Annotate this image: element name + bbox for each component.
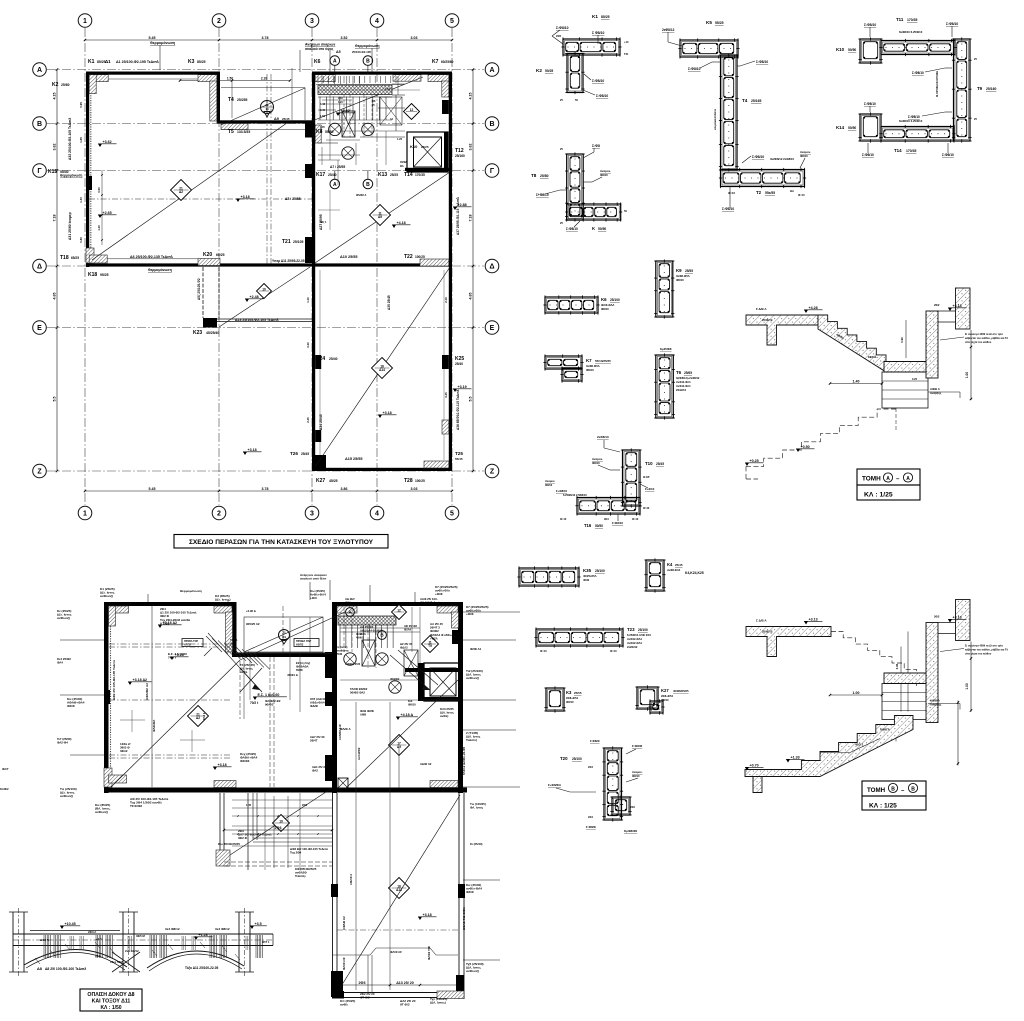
svg-text:Φ5Τ 1: Φ5Τ 1 <box>262 940 270 944</box>
svg-text:Δ5: Δ5 <box>336 50 341 54</box>
svg-text:25/100: 25/100 <box>572 757 582 761</box>
svg-text:25/60: 25/60 <box>61 83 70 87</box>
slab diamond stair <box>404 104 420 120</box>
svg-text:170/35: 170/35 <box>907 18 917 22</box>
svg-text:905/25 Λ2: 905/25 Λ2 <box>246 622 260 626</box>
svg-text:+Φ/Φ: +Φ/Φ <box>466 612 474 616</box>
stair treads upper flight <box>319 97 321 121</box>
svg-text:3Φ5 Μ: 3Φ5 Μ <box>136 934 145 938</box>
B-B upper landing slab <box>746 627 831 657</box>
svg-text:+4.18: +4.18 <box>397 221 406 225</box>
svg-text:Φ8/10: Φ8/10 <box>586 368 594 372</box>
svg-text:T11: T11 <box>896 17 904 22</box>
stair area more clutter <box>322 99 352 101</box>
svg-text:6.25Φ/10-0.5Φ 2/10: 6.25Φ/10-0.5Φ 2/10 <box>627 633 651 637</box>
svg-text:Σ:Φ8/10: Σ:Φ8/10 <box>556 26 569 30</box>
wc fixture circle 16 <box>342 147 354 159</box>
wall col 3 lower <box>312 266 315 471</box>
svg-text:Δ38 85/Φ10-Φ2-115 ΤεΔιπλ: Δ38 85/Φ10-Φ2-115 ΤεΔιπλ <box>456 389 460 430</box>
svg-text:+3.13: +3.13 <box>953 615 962 619</box>
column block col5 B <box>442 100 449 114</box>
svg-text:T22: T22 <box>404 254 413 260</box>
svg-text:Αναμον.: Αναμον. <box>545 479 555 483</box>
svg-text:Φ=10: Φ=10 <box>610 649 617 653</box>
svg-text:5.5: 5.5 <box>53 397 57 402</box>
svg-text:2Φ2: 2Φ2 <box>934 615 940 619</box>
svg-text:+0.25: +0.25 <box>750 459 759 463</box>
svg-text:0.45: 0.45 <box>320 108 326 112</box>
svg-text:Θερμομόνωση: Θερμομόνωση <box>150 41 175 45</box>
svg-text:Φ8/10: Φ8/10 <box>592 461 600 465</box>
svg-text:Σ:Φ8/Φ: Σ:Φ8/Φ <box>590 739 600 743</box>
column hatch K6 <box>315 75 335 82</box>
svg-text:K35: K35 <box>583 568 592 573</box>
svg-text:ανΦλ: ανΦλ <box>240 670 248 674</box>
svg-text:3.03: 3.03 <box>411 487 418 491</box>
svg-text:ΛΔ/Φ Λ2: ΛΔ/Φ Λ2 <box>420 762 432 766</box>
beam section K35 <box>519 568 579 586</box>
svg-text:Ε: Ε <box>490 325 495 332</box>
bottom plan lift shaft <box>424 663 462 701</box>
slab diamond small <box>257 284 272 299</box>
svg-text:ΚρΦ8/Φ0: ΚρΦ8/Φ0 <box>624 829 637 833</box>
svg-text:4: 4 <box>375 511 379 518</box>
svg-text:(ΔΛ. Ιστος): (ΔΛ. Ιστος) <box>430 1001 446 1005</box>
svg-text:45/Φ1 Δ: 45/Φ1 Δ <box>287 673 298 677</box>
svg-text:Υπερ Δ11 25/95-22-05: Υπερ Δ11 25/95-22-05 <box>272 259 305 263</box>
svg-text:25/40: 25/40 <box>328 173 337 177</box>
svg-text:Δ34 25/45: Δ34 25/45 <box>319 414 323 430</box>
level mark between cols 2-3 <box>243 452 247 455</box>
svg-text:Φ.ΟΡ: Φ.ΟΡ <box>643 476 650 479</box>
column block K17 <box>305 164 312 178</box>
svg-text:Δ8 25/ 100-Φ2-100 ΤεΔιπλ: Δ8 25/ 100-Φ2-100 ΤεΔιπλ <box>45 967 86 971</box>
B-B dashed upper flight <box>831 632 916 676</box>
svg-text:25/255: 25/255 <box>237 98 247 102</box>
A-A right vertical dim <box>970 330 972 400</box>
slab diagonal lower-right <box>315 267 450 467</box>
svg-text:+4.28: +4.28 <box>809 306 818 310</box>
bottom plan mid-strip verticals <box>239 654 241 719</box>
B-B central dim lines <box>900 647 902 712</box>
svg-text:ανΦλνιξ): ανΦλνιξ) <box>60 794 73 798</box>
svg-text:25/100: 25/100 <box>595 569 605 573</box>
svg-text:Θερμομόνωση: Θερμομόνωση <box>60 174 82 178</box>
column hatch K3 <box>198 75 217 82</box>
svg-text:25/40: 25/40 <box>329 357 338 361</box>
svg-text:T28: T28 <box>404 478 413 484</box>
wc fixture circle 15 <box>362 123 374 135</box>
svg-text:ΚΛ : 1/50: ΚΛ : 1/50 <box>100 1005 121 1011</box>
column hatch K20 <box>198 259 220 266</box>
svg-text:ΦΛ2-Φ4: ΦΛ2-Φ4 <box>57 741 68 745</box>
column hatch K26 <box>442 420 449 434</box>
svg-text:ΦΛ. Ιστος: ΦΛ. Ιστος <box>470 806 484 810</box>
svg-text:T2: T2 <box>756 190 762 195</box>
svg-text:1.20: 1.20 <box>397 137 403 141</box>
svg-text:ΤΟΜΗ: ΤΟΜΗ <box>862 476 881 483</box>
svg-text:Φ8/10: Φ8/10 <box>566 700 574 704</box>
column block K23 <box>203 318 217 328</box>
svg-text:Δ9: Δ9 <box>378 215 382 219</box>
slab diagonal small D13 <box>219 267 310 327</box>
slab diagonal stair corridor <box>312 77 423 121</box>
svg-text:25/100: 25/100 <box>638 628 648 632</box>
svg-text:Δ13 25/105-Φ2-105 ΤεΔιπλ: Δ13 25/105-Φ2-105 ΤεΔιπλ <box>235 318 279 322</box>
svg-text:Η7/Π2: Η7/Π2 <box>184 644 191 647</box>
svg-text:50/50: 50/50 <box>848 126 856 130</box>
svg-text:Φ=10: Φ=10 <box>798 193 805 197</box>
svg-text:2: 2 <box>217 511 221 518</box>
svg-text:2xΦ8/10: 2xΦ8/10 <box>597 435 609 439</box>
svg-text:T14: T14 <box>894 148 902 153</box>
svg-text:+3.18: +3.18 <box>383 411 392 415</box>
svg-text:Φ.ΟΡΟΦΗ Φ.ΟΡΟΦΗ: Φ.ΟΡΟΦΗ Φ.ΟΡΟΦΗ <box>935 71 939 97</box>
svg-text:K10: K10 <box>410 144 418 149</box>
svg-text:Σ+Φ8/ΦΛ: Σ+Φ8/ΦΛ <box>548 783 561 787</box>
svg-text:25/Φ2 Β: 25/Φ2 Β <box>762 318 773 322</box>
section mark B bottom <box>363 179 373 189</box>
svg-text:9Φ/Φ2: 9Φ/Φ2 <box>265 703 274 707</box>
A-A landing <box>884 362 929 373</box>
column hatch A-wall mid <box>393 75 421 82</box>
column section K5/T4/T2 <box>680 40 738 57</box>
svg-text:2Φ3: 2Φ3 <box>302 803 308 807</box>
beam section K4 group <box>646 560 664 591</box>
svg-text:Δ15 25/55: Δ15 25/55 <box>345 457 363 461</box>
svg-text:K3: K3 <box>188 59 195 65</box>
svg-text:Φ2/Φ: Φ2/Φ <box>466 890 474 894</box>
wall col 3 upper <box>312 72 315 267</box>
B-B right wall <box>926 623 938 723</box>
B-B wall below landing <box>882 684 928 720</box>
beam section K9 <box>656 261 673 317</box>
right dimension chain <box>472 70 474 472</box>
svg-text:2Φ3: 2Φ3 <box>359 981 366 985</box>
svg-text:ΦΤ Φ/2: ΦΤ Φ/2 <box>360 996 370 1000</box>
svg-text:Β: Β <box>37 121 42 128</box>
svg-text:14: 14 <box>265 107 269 111</box>
column hatch T25 <box>424 461 449 468</box>
svg-text:ΤΛ2 1: ΤΛ2 1 <box>202 712 206 720</box>
svg-text:ΤεΔιπλ): ΤεΔιπλ) <box>295 874 306 878</box>
svg-text:85/25: 85/25 <box>97 60 106 64</box>
svg-text:Δ9: Δ9 <box>274 117 279 121</box>
beam section T6 <box>656 355 674 418</box>
svg-text:5.5: 5.5 <box>469 397 473 402</box>
svg-text:25/45: 25/45 <box>301 452 309 456</box>
A-A right wall <box>926 311 938 378</box>
section mark A bottom <box>330 179 340 189</box>
wall row A left room <box>86 72 220 75</box>
svg-text:+4.18 Δ: +4.18 Δ <box>401 713 414 717</box>
svg-text:Φ8/10: Φ8/10 <box>661 698 669 702</box>
bottom plan section marks <box>346 608 355 617</box>
slab diagonal T4 strip <box>221 88 305 125</box>
svg-text:Π2/Φ: Π2/Φ <box>296 668 303 672</box>
svg-text:5.45: 5.45 <box>149 487 156 491</box>
svg-text:K27: K27 <box>661 688 669 693</box>
svg-text:ΦΛ/Γ: ΦΛ/Γ <box>2 767 9 771</box>
svg-text:K2: K2 <box>52 82 59 88</box>
svg-text:Δ1: Δ1 <box>105 59 111 64</box>
svg-text:T6: T6 <box>676 370 682 375</box>
slab diagonal room mid-right <box>315 172 450 263</box>
wall row B beam T5 <box>217 120 312 123</box>
svg-text:Α: Α <box>37 67 42 74</box>
svg-text:+10.45: +10.45 <box>65 922 76 926</box>
arch curves <box>24 949 127 967</box>
column section frame K10/T11/T9/T14/K14 <box>860 39 881 63</box>
svg-text:K6: K6 <box>314 59 321 65</box>
svg-text:K7: K7 <box>432 59 439 65</box>
svg-text:Αναμον.: Αναμον. <box>632 770 643 774</box>
svg-text:ΛΦΒ: ΛΦΒ <box>360 713 366 717</box>
wall notch col 2 <box>217 72 220 124</box>
top plan grid circles left <box>33 63 47 77</box>
svg-text:Δ35 25/45: Δ35 25/45 <box>387 295 391 310</box>
svg-text:25/65: 25/65 <box>684 371 692 375</box>
svg-text:12ελ 50/2: 12ελ 50/2 <box>110 960 123 964</box>
svg-text:Θερμομόνωση: Θερμομόνωση <box>148 268 172 272</box>
slab diagonal room1 <box>92 122 289 261</box>
column section K1/K2 L-shape <box>563 39 620 55</box>
svg-text:Φ2/Φ Λ4: Φ2/Φ Λ4 <box>470 647 481 651</box>
svg-text:50/50: 50/50 <box>595 524 603 528</box>
svg-text:K20: K20 <box>203 252 212 258</box>
svg-text:+0.70: +0.70 <box>750 763 759 767</box>
svg-text:3(2Φ8/12)+2xΦ8/12: 3(2Φ8/12)+2xΦ8/12 <box>676 376 700 380</box>
svg-text:1.50: 1.50 <box>227 76 233 80</box>
svg-text:Ζ: Ζ <box>490 469 495 476</box>
svg-text:Σ:Φ8/10: Σ:Φ8/10 <box>862 153 874 157</box>
svg-text:ανΦλνιξ): ανΦλνιξ) <box>466 969 479 973</box>
bottom plan pin circle 21 <box>279 630 290 641</box>
svg-text:Α: Α <box>489 67 494 74</box>
svg-text:170/35: 170/35 <box>415 173 425 177</box>
svg-text:Ε: Ε <box>37 325 42 332</box>
svg-text:1.20: 1.20 <box>338 101 343 104</box>
svg-text:Α: Α <box>906 476 910 482</box>
svg-text:T21: T21 <box>282 239 291 245</box>
svg-text:ΣΧΕΔΙΟ ΠΕΡΑΣΩΝ ΓΙΑ ΤΗΝ ΚΑΤΑΣΚΕ: ΣΧΕΔΙΟ ΠΕΡΑΣΩΝ ΓΙΑ ΤΗΝ ΚΑΤΑΣΚΕΥΗ ΤΟΥ ΞΥΛ… <box>189 539 374 546</box>
svg-text:+3.18: +3.18 <box>423 913 432 917</box>
svg-text:Σ Φ8/10: Σ Φ8/10 <box>592 31 604 35</box>
svg-text:ΦΔΛ2: ΦΔΛ2 <box>400 646 408 650</box>
bottom plan beam stub <box>219 793 221 866</box>
stair treads lower <box>321 76 323 84</box>
svg-text:+Φ/3: +Φ/3 <box>310 596 317 600</box>
svg-text:ΚΛ : 1/25: ΚΛ : 1/25 <box>869 803 897 810</box>
svg-text:ΔΦ3 Λ: ΔΦ3 Λ <box>40 938 49 942</box>
svg-text:4.15: 4.15 <box>469 93 473 100</box>
bottom plan dim cluster below D wall <box>232 799 332 801</box>
svg-text:ΑνΦ12-ΦΛ4: ΑνΦ12-ΦΛ4 <box>627 637 642 641</box>
beam section K27 square <box>637 687 658 709</box>
svg-text:Τοχ 2Φ4: Τοχ 2Φ4 <box>290 851 302 855</box>
svg-text:Φ8/10: Φ8/10 <box>408 703 416 707</box>
wall row Gamma T14 segment <box>405 168 452 171</box>
svg-text:3.03: 3.03 <box>411 36 418 40</box>
svg-text:K1: K1 <box>88 59 95 65</box>
svg-text:95/25: 95/25 <box>100 273 109 277</box>
svg-text:+3.18 Δ2: +3.18 Δ2 <box>133 678 148 682</box>
svg-text:ΤΛΦΛ2 Β2/ΦΛ-22-Φ5: ΤΛΦΛ2 Β2/ΦΛ-22-Φ5 <box>462 746 466 775</box>
column block K24 <box>315 355 321 369</box>
svg-text:K14: K14 <box>836 125 845 130</box>
svg-text:Φ8/10: Φ8/10 <box>632 774 640 778</box>
svg-text:Δ5ζ 25/105-Φ2: Δ5ζ 25/105-Φ2 <box>197 278 201 300</box>
svg-text:ΘΑ: ΘΑ <box>790 189 794 193</box>
svg-text:+3.13: +3.13 <box>809 617 818 621</box>
B-B slab level mark <box>804 621 808 624</box>
svg-text:2: 2 <box>217 18 221 25</box>
level mark room1 <box>236 199 240 202</box>
svg-text:0.80: 0.80 <box>79 237 83 243</box>
B-B solid lower flight <box>745 716 913 777</box>
bottom plan stair hatch <box>338 616 396 625</box>
small dim chain inside room1 <box>101 170 103 245</box>
svg-text:9Τ Φ/2: 9Τ Φ/2 <box>400 1003 410 1007</box>
svg-text:3.45: 3.45 <box>444 392 448 398</box>
svg-text:+3.62: +3.62 <box>103 140 112 144</box>
svg-text:Δ10 25/55: Δ10 25/55 <box>340 255 358 259</box>
svg-text:3x4 Φ8/12: 3x4 Φ8/12 <box>215 927 230 931</box>
svg-text:1.40: 1.40 <box>97 225 101 231</box>
svg-text:ανΦ8-ΦΛ4: ανΦ8-ΦΛ4 <box>667 568 681 572</box>
beam section K7 <box>545 356 582 369</box>
svg-text:3.52: 3.52 <box>341 36 348 40</box>
svg-text:Φ8/10: Φ8/10 <box>676 278 684 282</box>
svg-text:6.25Φ8/13 2.5Φ8/10: 6.25Φ8/13 2.5Φ8/10 <box>563 493 587 497</box>
svg-text:Φ8/10: Φ8/10 <box>601 307 609 311</box>
svg-text:κάβονται του κιάθου, ράβδοι κα: κάβονται του κιάθου, ράβδοι και Τό <box>965 336 1008 340</box>
slab diamond lower-right <box>372 358 393 379</box>
bottom plan walls <box>104 602 236 606</box>
svg-text:ΦΛΦ/ΦΛ: ΦΛΦ/ΦΛ <box>152 720 156 732</box>
svg-text:Σ:Φ8/10: Σ:Φ8/10 <box>596 94 608 98</box>
stair area tick rows below wall A <box>317 76 319 83</box>
svg-text:Σ Δ/Β Α: Σ Δ/Β Α <box>756 619 767 623</box>
svg-text:Δ31 25/60 Ισομερ: Δ31 25/60 Ισομερ <box>68 212 72 240</box>
svg-text:ΑΦΛ/ΦΛ Α2: ΑΦΛ/ΦΛ Α2 <box>145 683 149 700</box>
svg-text:ΦΛ/Φ ΛΣ: ΦΛ/Φ ΛΣ <box>390 950 402 954</box>
svg-text:Τόξο Δ11 25/100-22-05: Τόξο Δ11 25/100-22-05 <box>185 966 218 970</box>
svg-text:25/Φ: 25/Φ <box>336 652 343 656</box>
svg-text:1.45: 1.45 <box>246 803 252 807</box>
column block K8 <box>305 124 312 138</box>
svg-text:σκαλιού από Φλιτ: σκαλιού από Φλιτ <box>300 577 327 581</box>
svg-text:Ε.Σ. 1 b=0.60: Ε.Σ. 1 b=0.60 <box>258 693 280 697</box>
svg-text:T23: T23 <box>627 627 635 632</box>
dim line 2.18 above T4 <box>180 80 290 82</box>
svg-text:Δ: Δ <box>489 264 494 271</box>
svg-text:T25: T25 <box>455 451 463 456</box>
top dimension line <box>85 39 452 41</box>
svg-text:55x/55: 55x/55 <box>765 191 775 195</box>
svg-text:ΑνΦ12-ΦΛ4: ΑνΦ12-ΦΛ4 <box>627 641 642 645</box>
svg-text:ΔΦ2 25/ 105-Φ2-105 ΤεΔιπλ: ΔΦ2 25/ 105-Φ2-105 ΤεΔιπλ <box>112 660 116 700</box>
svg-text:1.10: 1.10 <box>385 87 391 91</box>
svg-text:Φ2Λ4: Φ2Λ4 <box>404 628 411 632</box>
svg-text:Φ8/10: Φ8/10 <box>800 154 808 158</box>
column block T26 <box>315 430 321 442</box>
svg-text:55/45: 55/45 <box>455 457 463 461</box>
svg-text:2Φ5: 2Φ5 <box>556 34 562 38</box>
svg-text:1.10: 1.10 <box>306 297 310 303</box>
column section T8 L-shape <box>567 154 584 220</box>
slab diamond D2 <box>171 180 192 201</box>
svg-text:ΑνΦ12-ΦΛ4: ΑνΦ12-ΦΛ4 <box>676 380 691 384</box>
svg-text:T20: T20 <box>560 756 568 761</box>
svg-text:45/Φ2: 45/Φ2 <box>400 161 407 164</box>
top plan grid circles right <box>485 63 499 77</box>
svg-text:2xΦ8/12: 2xΦ8/12 <box>662 28 675 32</box>
svg-text:+3.18: +3.18 <box>241 195 250 199</box>
svg-text:25/Φ2 Β: 25/Φ2 Β <box>762 630 773 634</box>
svg-text:1.40: 1.40 <box>79 197 83 203</box>
svg-text:Σ:Φ8/10: Σ:Φ8/10 <box>722 207 734 211</box>
beam section T23 <box>536 629 623 646</box>
svg-text:0.60: 0.60 <box>97 187 101 193</box>
svg-text:Σ:Φ8/10: Σ:Φ8/10 <box>864 102 876 106</box>
svg-text:Σ:Φ8/10: Σ:Φ8/10 <box>864 23 876 27</box>
column block T21 <box>305 237 312 263</box>
bottom plan dimension stubs <box>60 694 104 696</box>
B-B lower hanging wall <box>753 777 762 793</box>
wall col 5 right <box>449 72 452 472</box>
svg-text:K17: K17 <box>316 172 325 178</box>
small partition lines stair area <box>318 96 392 98</box>
svg-text:σϊτο ρίχτα του κιάθου: σϊτο ρίχτα του κιάθου <box>965 340 992 344</box>
svg-text:ΟΠΛΙΣΗ ΔΟΚΟΥ Δ8: ΟΠΛΙΣΗ ΔΟΚΟΥ Δ8 <box>87 992 134 998</box>
svg-text:60/25/60: 60/25/60 <box>441 60 454 64</box>
svg-text:κλιμακοστάσιο: κλιμακοστάσιο <box>713 109 717 130</box>
svg-text:25/80: 25/80 <box>540 174 549 178</box>
svg-text:2Φ2: 2Φ2 <box>630 806 635 809</box>
level mark mid <box>392 225 396 228</box>
arch stirrup ticks <box>43 935 45 958</box>
column hatch T5 <box>221 124 248 130</box>
svg-text:Σ:Φ8/10: Σ:Φ8/10 <box>688 67 701 71</box>
svg-text:4.65: 4.65 <box>53 293 57 300</box>
svg-text:2Φ4: 2Φ4 <box>588 766 593 769</box>
svg-text:κάβονται του κιάθου, ράβδοι κα: κάβονται του κιάθου, ράβδοι και Τό <box>965 648 1008 652</box>
svg-text:3.78: 3.78 <box>262 487 269 491</box>
svg-text:+0.50: +0.50 <box>801 445 810 449</box>
svg-text:ΑΦ/ΒΛ 25/2: ΑΦ/ΒΛ 25/2 <box>345 662 361 666</box>
svg-text:Δ2: Δ2 <box>179 190 183 194</box>
svg-text:+3.5: +3.5 <box>255 922 262 926</box>
column block K15 <box>86 176 92 190</box>
svg-text:0.96: 0.96 <box>895 663 899 669</box>
A-A wall below landing <box>882 372 928 408</box>
svg-text:45/2 1: 45/2 1 <box>855 743 864 747</box>
svg-text:ΤεΔιπλ): ΤεΔιπλ) <box>466 738 477 742</box>
arch labels <box>60 926 64 929</box>
svg-text:25/105: 25/105 <box>293 240 303 244</box>
svg-text:+Φ/Φ: +Φ/Φ <box>435 592 443 596</box>
svg-text:Φ8/10: Φ8/10 <box>600 173 608 177</box>
svg-text:Σ:Φ8/10: Σ:Φ8/10 <box>592 79 604 83</box>
level mark low right <box>378 415 382 418</box>
svg-text:T14: T14 <box>404 172 413 178</box>
svg-text:1: 1 <box>83 18 87 25</box>
A-A slab level mark <box>804 310 808 313</box>
svg-text:Φ2/Φ3: Φ2/Φ3 <box>240 759 250 763</box>
svg-text:Δ6 25/100-Φ2-135 ΤεΔιπλ: Δ6 25/100-Φ2-135 ΤεΔιπλ <box>130 255 173 259</box>
svg-text:5: 5 <box>450 18 454 25</box>
